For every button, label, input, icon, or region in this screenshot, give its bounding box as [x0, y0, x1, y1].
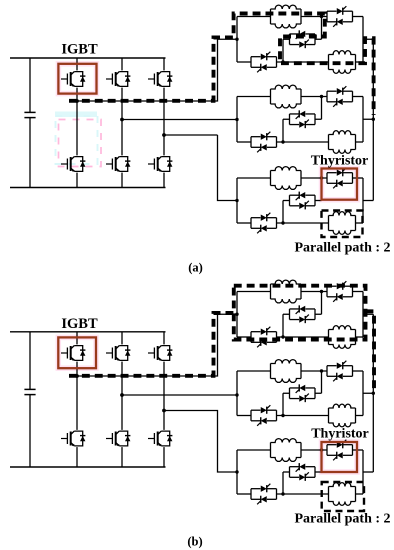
svg-text:Thyristor: Thyristor: [311, 427, 369, 442]
svg-text:(b): (b): [187, 535, 202, 549]
svg-text:IGBT: IGBT: [61, 316, 98, 332]
svg-text:Parallel path : 2: Parallel path : 2: [294, 241, 390, 256]
svg-text:IGBT: IGBT: [61, 42, 98, 58]
svg-text:Parallel path : 2: Parallel path : 2: [294, 512, 390, 527]
svg-text:Thyristor: Thyristor: [311, 154, 369, 169]
svg-text:(a): (a): [188, 261, 203, 275]
